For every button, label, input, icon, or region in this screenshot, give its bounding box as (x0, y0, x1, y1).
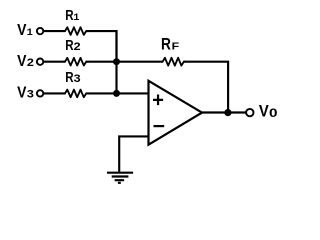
op-amp U1 (149, 81, 203, 145)
label V3 (17, 85, 34, 102)
svg-text:1: 1 (27, 27, 33, 39)
wire op-amp output (202, 111, 246, 113)
junction dot bus-R3 (113, 90, 120, 97)
svg-text:F: F (172, 42, 180, 53)
resistor R3 (64, 90, 89, 98)
svg-text:3: 3 (74, 73, 81, 85)
svg-text:2: 2 (27, 57, 34, 69)
node V3 terminal (37, 90, 43, 96)
ground (107, 173, 133, 183)
svg-text:3: 3 (27, 89, 34, 101)
svg-text:0: 0 (269, 106, 278, 120)
node V1 terminal (37, 28, 43, 34)
label R2 (65, 38, 81, 54)
junction dot bus-R2 (113, 58, 120, 65)
wire R3 to op-amp noninverting input (86, 92, 149, 94)
svg-text:1: 1 (73, 13, 79, 24)
svg-text:V: V (17, 22, 27, 39)
resistor R2 (64, 58, 89, 66)
label RF (161, 36, 179, 54)
label R1 (65, 8, 79, 24)
label V1 (17, 22, 33, 39)
wire V2 to R2 (44, 61, 65, 63)
pin + (noninverting) (153, 95, 163, 106)
wire RF to output node (184, 62, 229, 113)
node V0 terminal (246, 109, 253, 116)
pin - (inverting) (154, 125, 165, 127)
label V0 (259, 102, 278, 121)
wire V3 to R3 (44, 92, 65, 94)
junction dot output (224, 109, 231, 116)
wire summing bus (115, 30, 117, 93)
wire R1 to bus (86, 31, 117, 62)
resistor R1 (64, 27, 89, 35)
wire bus to RF (117, 61, 163, 63)
svg-text:2: 2 (74, 41, 81, 53)
wire V1 to R1 (44, 30, 65, 32)
svg-text:V: V (17, 85, 27, 102)
svg-text:R: R (161, 36, 171, 54)
node V2 terminal (37, 59, 43, 65)
resistor RF (161, 58, 186, 66)
svg-text:V: V (17, 53, 27, 70)
wire inverting input to ground (119, 136, 148, 172)
svg-text:V: V (259, 102, 269, 121)
label R3 (65, 70, 81, 86)
label V2 (17, 53, 34, 70)
wire R2 to bus (86, 61, 118, 63)
